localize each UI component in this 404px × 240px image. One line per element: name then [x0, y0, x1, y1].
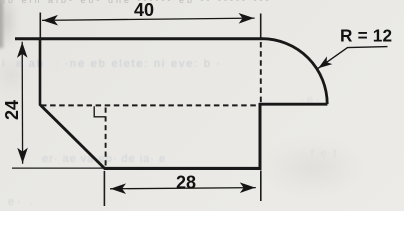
outline: right edge	[259, 103, 262, 170]
extension line right of dim 28	[260, 171, 262, 202]
extension line left of dim 40	[39, 13, 41, 44]
extension line left of dim 28	[103, 171, 105, 206]
outline: chamfer diagonal	[40, 105, 105, 169]
right-angle mark	[94, 106, 105, 117]
hidden line: vertical dashed under arc	[260, 42, 262, 103]
scan edge sliver left	[0, 0, 3, 48]
paper mottling bottom-right	[263, 140, 363, 195]
show-through marks bottom-left	[8, 196, 33, 208]
cropped text row at very top	[0, 0, 272, 5]
scan smudge top-left	[0, 0, 18, 50]
dimension line 24 with arrows	[21, 42, 23, 164]
leader line for R=12 with arrow	[318, 47, 388, 69]
outline: chord line under arc	[259, 103, 327, 106]
hidden line: horizontal dashed	[41, 104, 258, 106]
dimension line 28 with arrows	[110, 188, 256, 189]
show-through text line B	[42, 153, 166, 165]
show-through text line A	[2, 58, 222, 70]
outline: quarter-circle arc R=12	[262, 39, 327, 104]
outline: top edge	[15, 37, 263, 40]
dimension line 40 with arrows	[42, 18, 255, 20]
outline: bottom edge	[104, 167, 262, 170]
outline: left edge	[39, 38, 42, 106]
extension line bottom of dim 24	[12, 167, 103, 169]
svg-text:28: 28	[176, 172, 196, 192]
paper mottling mid-left	[0, 55, 26, 95]
svg-text:24: 24	[2, 100, 22, 120]
hidden line: interior vertical dashed	[105, 108, 107, 168]
show-through marks mid right	[300, 94, 320, 106]
svg-text:40: 40	[134, 0, 154, 20]
extension line right of dim 40	[260, 14, 262, 41]
svg-text:R = 12: R = 12	[340, 25, 392, 45]
show-through marks right of shape	[304, 148, 336, 160]
